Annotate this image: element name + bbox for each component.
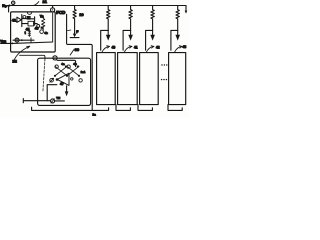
svg-text:VIN2: VIN2 (0, 39, 7, 43)
svg-text:46: 46 (35, 27, 39, 31)
wire FCD down-right bus (67, 14, 93, 110)
resistor branch cell3 (151, 6, 154, 31)
battery cell 34 (169, 53, 186, 105)
wire top rail (8, 5, 187, 7)
svg-text:F: F (76, 30, 79, 34)
node dot (66, 75, 68, 77)
wire hook bottom cell4 (168, 105, 182, 111)
resistor branch cell4 (176, 6, 179, 31)
node circle with slash 47 (50, 78, 54, 82)
svg-text:42: 42 (156, 45, 160, 49)
svg-text:1a1: 1a1 (81, 70, 86, 74)
node dot small (52, 78, 54, 80)
arrow arc cell3 (146, 46, 154, 52)
node circle (67, 65, 70, 68)
node dot (78, 75, 80, 77)
node circle top terminal (12, 1, 15, 4)
svg-text:10: 10 (79, 12, 84, 17)
battery cell 31 (97, 53, 116, 105)
battery cell 33 (140, 53, 159, 105)
ellipsis dots (161, 64, 162, 65)
svg-text:4b: 4b (73, 62, 77, 66)
node vertex dot (56, 78, 59, 81)
node circle on box top (53, 56, 57, 60)
svg-text:FCD: FCD (56, 10, 65, 15)
resistor branch 10 (73, 6, 76, 34)
node dot (21, 39, 23, 41)
node circle (55, 65, 58, 68)
arrow cell4 (177, 30, 179, 35)
wire tick (30, 38, 32, 43)
wire hook cell1 (101, 30, 109, 50)
wire bottom bus (32, 107, 109, 110)
node Rp arrowhead (7, 4, 10, 6)
dashed control wire (20, 55, 45, 59)
node circle with slash (51, 99, 55, 103)
node circle 40 (40, 30, 44, 34)
svg-text:47: 47 (60, 82, 64, 86)
node dot (54, 75, 56, 77)
node FCD circle (51, 8, 55, 12)
svg-text:22: 22 (12, 59, 17, 64)
svg-text:41: 41 (134, 45, 138, 49)
component blob (41, 27, 44, 29)
arrow cell3 (152, 30, 154, 35)
wire cross X1 (55, 66, 67, 76)
wire input terminal (23, 99, 50, 103)
label 22 arrow (14, 46, 29, 59)
box 20 (upper dashed block) (11, 12, 56, 52)
label 21 pointer (34, 2, 39, 6)
op-amp U1 triangle (17, 17, 22, 22)
resistor R43 zigzag (42, 18, 45, 30)
node summing circle (15, 38, 19, 42)
svg-text:4b: 4b (44, 31, 48, 35)
wire (31, 17, 35, 25)
wire with summing node (13, 39, 34, 41)
arrow arc cell4 (174, 46, 182, 52)
svg-text:43: 43 (183, 45, 187, 49)
svg-text:40: 40 (112, 45, 116, 49)
wire cross X2 (67, 66, 79, 76)
wire circle to rail (12, 5, 14, 6)
ellipsis dots (161, 79, 162, 80)
wire output to FCD (12, 42, 52, 43)
wire tick (67, 29, 70, 32)
node circle small (23, 16, 26, 19)
svg-text:30: 30 (75, 47, 80, 52)
wire input Vin2 (1, 42, 13, 44)
component blob (27, 16, 31, 20)
terminal bar (70, 37, 79, 39)
arrow arc cell2 (124, 46, 132, 52)
component box (28, 21, 34, 26)
svg-text:RP: RP (2, 3, 7, 8)
svg-text:4a: 4a (61, 62, 65, 66)
svg-text:21: 21 (43, 0, 48, 4)
node junction dot (12, 43, 14, 45)
svg-text:TH: TH (56, 96, 60, 100)
arrow cell1 (107, 30, 109, 35)
wire output arrow (66, 86, 68, 92)
wire (55, 100, 65, 102)
resistor branch cell2 (129, 6, 132, 31)
wire hook bottom cell2 (116, 105, 130, 111)
wire FCD vertical (52, 12, 54, 42)
wire hook cell4 (171, 30, 178, 50)
wire FCD to rail (52, 6, 54, 8)
node tick on box top (27, 12, 32, 14)
wire step (47, 85, 57, 101)
arrow cell2 (130, 30, 132, 35)
node circle small (79, 79, 82, 82)
wire (22, 18, 27, 20)
node dot (77, 65, 79, 67)
wire rail end tail (185, 6, 187, 11)
node circle small (71, 78, 73, 80)
wire bar (21, 15, 23, 27)
wire from node (57, 60, 76, 66)
svg-text:41: 41 (12, 19, 16, 23)
svg-text:t: t (25, 31, 27, 35)
box 30 (lower block) (38, 58, 91, 105)
wire stub left box (8, 6, 10, 13)
wire hook cell2 (123, 30, 131, 50)
battery cell 32 (118, 53, 138, 105)
op-amp U2 triangle (57, 73, 69, 85)
node small circle (37, 25, 40, 28)
arrow arc cell1 (102, 46, 110, 52)
resistor branch cell1 (106, 6, 109, 31)
svg-text:1a: 1a (92, 113, 96, 117)
node dot (65, 65, 67, 67)
label 30 pointer (70, 49, 74, 55)
component ladder (28, 30, 30, 36)
wire hook cell3 (146, 30, 153, 50)
wire (22, 23, 37, 25)
wire hook bottom cell3 (138, 105, 152, 111)
